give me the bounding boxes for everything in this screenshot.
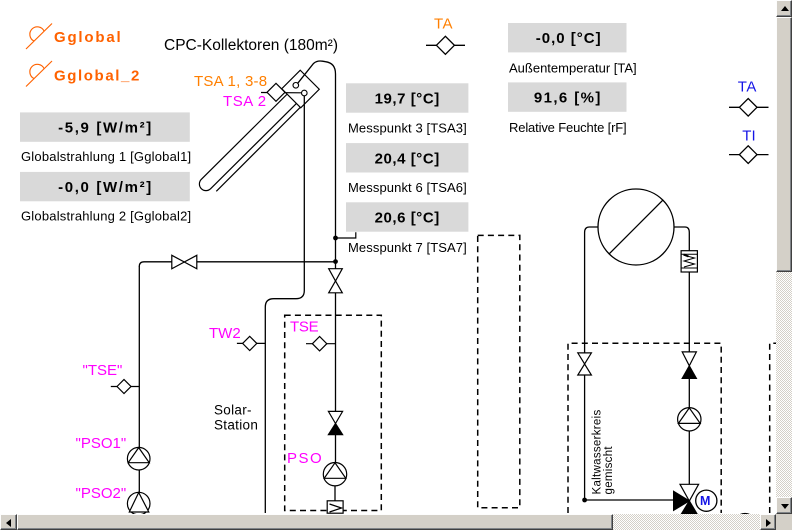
valve solar top — [329, 269, 343, 293]
svg-text:TA: TA — [738, 79, 757, 96]
hscroll right button — [760, 514, 777, 530]
svg-text:"TSE": "TSE" — [83, 362, 123, 379]
sensor diamond TSE left — [117, 380, 131, 394]
svg-text:Messpunkt 7 [TSA7]: Messpunkt 7 [TSA7] — [348, 240, 467, 255]
svg-text:"PSO1": "PSO1" — [76, 435, 127, 452]
sensor TA right: diamond — [739, 99, 757, 117]
wire to pump right — [688, 378, 690, 407]
dashed box right partial — [770, 343, 776, 513]
label Solar-Station — [214, 403, 258, 433]
svg-text:-0,0 [W/m²]: -0,0 [W/m²] — [58, 179, 153, 196]
wire solar riser — [335, 293, 337, 412]
svg-text:CPC-Kollektoren (180m²): CPC-Kollektoren (180m²) — [164, 37, 338, 54]
wire HX right down — [674, 227, 689, 251]
hscroll thumb — [17, 514, 613, 530]
hscroll left button — [0, 514, 17, 530]
svg-text:91,6 [%]: 91,6 [%] — [534, 90, 602, 107]
svg-text:19,7 [°C]: 19,7 [°C] — [375, 91, 440, 108]
svg-text:TSE: TSE — [290, 319, 319, 336]
wire kalt left down — [584, 375, 586, 500]
pump PSO1 — [127, 447, 150, 470]
pump kalt — [678, 408, 701, 431]
check valve right — [682, 352, 696, 379]
scrollbar corner — [776, 514, 792, 530]
value box Gglobal1 — [20, 112, 190, 141]
svg-text:Solar-: Solar- — [214, 403, 252, 418]
dashed box solar station — [285, 315, 382, 510]
value box TA — [508, 23, 627, 52]
wire collector return pipe — [265, 96, 304, 513]
svg-text:M: M — [700, 494, 710, 508]
heat exchanger circle — [598, 189, 674, 265]
svg-text:Gglobal: Gglobal — [54, 29, 122, 46]
strainer solar — [327, 501, 343, 513]
sensor TI right: wire stubs — [729, 154, 769, 156]
svg-text:20,4 [°C]: 20,4 [°C] — [375, 150, 440, 167]
svg-text:gemischt: gemischt — [603, 446, 615, 495]
svg-text:Station: Station — [214, 417, 258, 432]
collector tube — [206, 100, 291, 184]
value box TSA6 — [346, 143, 468, 172]
svg-text:TSA 1, 3-8: TSA 1, 3-8 — [194, 73, 267, 90]
value box TSA7 — [346, 202, 468, 231]
wire to pump PSO — [335, 435, 337, 463]
compensator component — [681, 251, 697, 272]
svg-text:Gglobal_2: Gglobal_2 — [54, 67, 141, 84]
svg-text:-5,9 [W/m²]: -5,9 [W/m²] — [58, 120, 153, 137]
wire left riser — [138, 266, 140, 492]
sensor TA right: wire stubs — [729, 106, 769, 108]
svg-text:Globalstrahlung 1 [Gglobal1]: Globalstrahlung 1 [Gglobal1] — [21, 149, 191, 164]
svg-text:"PSO2": "PSO2" — [76, 485, 127, 502]
svg-text:TW2: TW2 — [209, 325, 241, 342]
vscroll down button — [776, 497, 792, 514]
mixing valve 3way — [674, 484, 699, 513]
value box TSA3 — [346, 83, 468, 112]
collector header box — [282, 70, 320, 108]
pump PSO — [323, 463, 346, 486]
dashed box buffer — [478, 235, 520, 507]
svg-text:Außentemperatur [TA]: Außentemperatur [TA] — [509, 60, 637, 75]
wire to check valve right — [688, 272, 690, 352]
wire sensor stub TSA — [261, 92, 302, 94]
sensor TSE station diamond — [312, 337, 326, 351]
wire kalt horizontal — [585, 499, 674, 501]
svg-text:Messpunkt 3 [TSA3]: Messpunkt 3 [TSA3] — [348, 121, 467, 136]
sensor TW2 stub — [237, 342, 265, 344]
node junction bypass — [333, 259, 338, 264]
svg-text:PSO: PSO — [287, 450, 323, 467]
pyranometer icon Gglobal_2 — [26, 61, 52, 87]
svg-text:Kaltwasserkreis: Kaltwasserkreis — [592, 409, 604, 494]
sensor diamond TSA — [267, 83, 285, 101]
node junction kalt — [582, 498, 587, 503]
SCROLLBARS — [776, 0, 792, 514]
sensor TW2 diamond — [243, 336, 257, 350]
svg-text:TA: TA — [434, 16, 453, 33]
vscroll thumb — [776, 17, 792, 272]
port circle 1 — [293, 83, 299, 89]
sensor stub TSE left — [111, 386, 140, 388]
value box rF — [508, 82, 627, 111]
sensor TA top: wire stubs — [426, 44, 465, 46]
sensor TI right: diamond — [739, 146, 757, 164]
svg-text:Globalstrahlung 2 [Gglobal2]: Globalstrahlung 2 [Gglobal2] — [21, 209, 191, 224]
dashed box kaltwasser — [568, 343, 721, 513]
pump peek bottom right — [734, 514, 756, 530]
svg-text:Messpunkt 6 [TSA6]: Messpunkt 6 [TSA6] — [348, 180, 467, 195]
port circle 2 — [302, 90, 308, 96]
motor M circle — [696, 490, 717, 511]
wire leader Messpunkt7 — [336, 232, 356, 238]
vscroll up button — [776, 0, 792, 17]
pyranometer icon Gglobal — [26, 24, 52, 50]
heat exchanger diagonal — [609, 200, 663, 254]
wire collector flow pipe — [298, 61, 336, 269]
wire pump to mixer — [688, 431, 690, 484]
pump PSO2 — [127, 492, 150, 515]
valve kalt left — [578, 353, 592, 375]
wire bypass horizontal — [139, 262, 335, 267]
svg-text:-0,0 [°C]: -0,0 [°C] — [536, 30, 602, 47]
svg-text:TSA 2: TSA 2 — [223, 93, 267, 110]
wire HX left down — [585, 227, 598, 353]
value box Gglobal2 — [20, 172, 190, 201]
node junction T7 — [333, 236, 338, 241]
svg-text:20,6 [°C]: 20,6 [°C] — [375, 210, 440, 227]
valve bypass — [172, 255, 197, 268]
label Kaltwasserkreis gemischt — [592, 409, 615, 494]
wire pump to strainer — [334, 486, 336, 501]
sensor TA top: diamond — [436, 36, 454, 54]
check valve solar — [328, 411, 342, 434]
svg-text:Relative Feuchte [rF]: Relative Feuchte [rF] — [509, 120, 627, 135]
collector cover line — [216, 107, 300, 191]
svg-text:TI: TI — [742, 128, 755, 145]
sensor TSE station stub — [306, 343, 336, 345]
